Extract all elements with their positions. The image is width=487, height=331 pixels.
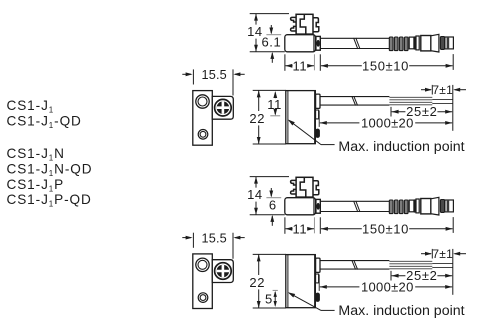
stripped wire ends: [432, 99, 453, 103]
cable gland (side view): [316, 258, 320, 272]
dimension 11: right extension tick (grey): [313, 54, 315, 70]
dimension 25±2: left tick: [390, 271, 392, 281]
dimension 11: dimension line with arrows: [285, 227, 314, 231]
cable (jacket outline): [320, 97, 389, 106]
body right edge (thick): [314, 91, 316, 144]
dimension label 25±2: [405, 106, 437, 117]
sensing face inner line: [287, 255, 289, 308]
svg-text:CS1-J1: CS1-J1: [7, 98, 55, 115]
screw head with phillips cross: [215, 99, 232, 116]
cable (jacket outline): [320, 201, 389, 211]
dimension 22: dimension line with arrows: [257, 90, 261, 144]
svg-text:CS1-J1N: CS1-J1N: [7, 146, 65, 163]
svg-text:14: 14: [247, 187, 263, 202]
sensor body (side view): [286, 255, 316, 308]
cable (jacket outline): [320, 38, 389, 48]
cable gland (side view): [316, 94, 320, 108]
svg-text:7±1: 7±1: [432, 83, 453, 97]
dimension 15.5: left extension tick: [192, 233, 194, 248]
dimension 1000±20: left extension line: [318, 111, 320, 127]
svg-text:6: 6: [269, 198, 277, 213]
dimension 6.1: upper arrow: [269, 25, 273, 35]
dimension 11: right extension tick (grey): [313, 217, 315, 233]
upper ring (switch): [196, 95, 209, 108]
leader arrow to max induction point (row 2): [288, 119, 335, 144]
dimension 25±2: dimension line with arrows: [392, 274, 453, 278]
svg-text:Max. induction point: Max. induction point: [338, 303, 464, 319]
dimension 7±1: right tick (long): [452, 249, 454, 295]
bracket plate (front view): [212, 260, 233, 283]
dimension 15.5: right arrow: [233, 236, 244, 240]
cable gland: [316, 199, 320, 213]
svg-text:22: 22: [249, 275, 265, 290]
bracket tab (side view): [316, 274, 319, 283]
svg-text:150±10: 150±10: [362, 59, 409, 74]
dimension 22: dimension line with arrows: [257, 254, 261, 308]
dimension 6: lower arrow: [270, 215, 274, 226]
connector collar rings: [409, 36, 419, 50]
dimension 25±2: left tick: [390, 107, 392, 117]
body end cap line: [313, 35, 315, 51]
dimension 6.1: lower arrow: [270, 52, 274, 63]
dimension 14: bottom extension line: [250, 51, 285, 53]
dimension 15.5: left arrow: [182, 72, 192, 76]
bracket plate (front view): [212, 96, 233, 119]
dimension 7±1: right tick (long): [452, 85, 454, 131]
connector body: [421, 36, 431, 51]
svg-text:22: 22: [249, 111, 265, 126]
svg-text:CS1-J1-QD: CS1-J1-QD: [7, 114, 82, 131]
dimension 15.5: left arrow: [182, 236, 192, 240]
dimension 14: top extension line: [250, 13, 289, 15]
dimension 150±10: dimension line with arrows: [321, 227, 453, 231]
dimension 14: top extension line: [250, 176, 289, 178]
dimension 7±1: left tick: [431, 249, 433, 259]
svg-text:15.5: 15.5: [201, 231, 227, 245]
dimension 1000±20: left extension line: [318, 275, 320, 291]
dimension 15.5: left extension tick: [192, 69, 194, 84]
dimension 22: top extension line: [253, 89, 286, 91]
lead wire bundle: [389, 261, 432, 269]
sensor body (side view): [286, 91, 316, 144]
dimension 22: bottom extension line: [253, 143, 286, 145]
sensor housing (front view): [193, 254, 213, 309]
dimension 11: grey tick at induction point level: [270, 115, 280, 117]
svg-text:14: 14: [247, 24, 263, 39]
svg-text:15.5: 15.5: [201, 68, 227, 82]
screw head (side view): [315, 129, 320, 138]
svg-text:11: 11: [293, 58, 308, 73]
dimension 6: upper arrow: [269, 188, 273, 198]
dimension label 25±2: [405, 270, 437, 281]
sensor body (top view): [285, 35, 316, 52]
connector end rings: [440, 37, 444, 50]
bracket tab (side view): [316, 110, 319, 119]
svg-text:CS1-J1P: CS1-J1P: [7, 177, 65, 194]
lower ring (small hole): [198, 293, 208, 303]
connector strain-relief ribs: [389, 37, 408, 51]
cable break mark: [352, 96, 358, 105]
dimension label 1000±20: [359, 281, 415, 292]
dimension 7±1: left tick: [431, 85, 433, 95]
mounting bracket (top view): [291, 177, 319, 197]
dimension 150±10: left extension tick: [319, 54, 321, 71]
dimension 11: left extension tick: [284, 54, 286, 71]
svg-text:5: 5: [265, 291, 272, 306]
dimension 150±10: right extension tick: [452, 54, 454, 70]
dimension 14: bottom extension line: [250, 214, 285, 216]
cable break mark: [352, 260, 358, 269]
svg-text:150±10: 150±10: [362, 222, 409, 237]
dimension label 1000±20: [359, 117, 415, 128]
dimension 6.1: grey extension tick: [266, 34, 281, 36]
dimension 5: grey tick at induction point level: [273, 289, 278, 291]
dimension 11: lower arrow: [273, 109, 277, 116]
dimension 11 (induction point from top): upper arrow: [273, 91, 277, 98]
sensing face inner line: [287, 91, 289, 144]
lead wire bundle: [389, 97, 432, 105]
dimension 15.5: right extension tick: [232, 69, 234, 95]
dimension 14: dimension line with arrows: [254, 177, 258, 215]
dimension 7±1: outside arrows: [421, 252, 466, 256]
stripped wire ends: [432, 263, 453, 267]
dimension 7±1: outside arrows: [421, 88, 466, 92]
mounting bracket (top view): [291, 14, 319, 34]
connector flare: [431, 197, 439, 215]
dimension label 11: [293, 223, 308, 235]
dimension 5: dimension line with arrows: [274, 291, 277, 307]
dimension 150±10: left extension tick: [319, 217, 321, 234]
svg-text:Max. induction point: Max. induction point: [338, 139, 464, 155]
dimension 25±2: dimension line with arrows: [392, 110, 453, 114]
dimension label 150±10: [362, 223, 409, 235]
upper ring (switch): [196, 258, 209, 271]
gland detail dot: [316, 40, 319, 47]
dimension 150±10: right extension tick: [452, 217, 454, 233]
body right edge (thick): [314, 255, 316, 308]
dimension 22: bottom extension line: [253, 307, 286, 309]
gland detail dot: [316, 203, 319, 210]
cable break mark: [354, 38, 360, 49]
dimension 22: top extension line: [253, 253, 286, 255]
dimension 1000±20: dimension line with arrows: [320, 121, 452, 125]
dimension 6: grey extension tick: [266, 197, 281, 199]
sensor housing (front view): [193, 91, 213, 146]
svg-text:11: 11: [293, 221, 308, 236]
dimension 150±10: dimension line with arrows: [321, 64, 453, 68]
svg-text:6.1: 6.1: [261, 35, 281, 50]
svg-text:7±1: 7±1: [432, 247, 453, 261]
svg-text:1000±20: 1000±20: [361, 115, 414, 130]
connector strain-relief ribs: [389, 200, 408, 214]
dimension 11: left extension tick: [284, 217, 286, 234]
dimension 14: dimension line with arrows: [254, 14, 258, 52]
connector end rings: [440, 200, 444, 213]
svg-text:1000±20: 1000±20: [361, 279, 414, 294]
screw head with phillips cross: [215, 263, 232, 280]
cable break mark: [354, 201, 360, 212]
connector flare: [431, 34, 439, 52]
lower ring (small hole): [198, 130, 208, 140]
cable gland: [316, 36, 320, 50]
dimension label 11: [293, 60, 308, 72]
leader arrow to max induction point (row 4): [288, 292, 335, 310]
connector body: [421, 199, 431, 214]
screw head (side view): [315, 293, 320, 302]
dimension 1000±20: dimension line with arrows: [320, 285, 452, 289]
sensor body (top view): [285, 198, 316, 215]
dimension 15.5: right extension tick: [232, 233, 234, 259]
dimension 15.5: right arrow: [233, 72, 244, 76]
connector collar rings: [409, 199, 419, 213]
body end cap line: [313, 198, 315, 214]
dimension 11: dimension line with arrows: [285, 64, 314, 68]
dimension label 150±10: [362, 60, 409, 72]
cable (jacket outline): [320, 261, 389, 270]
